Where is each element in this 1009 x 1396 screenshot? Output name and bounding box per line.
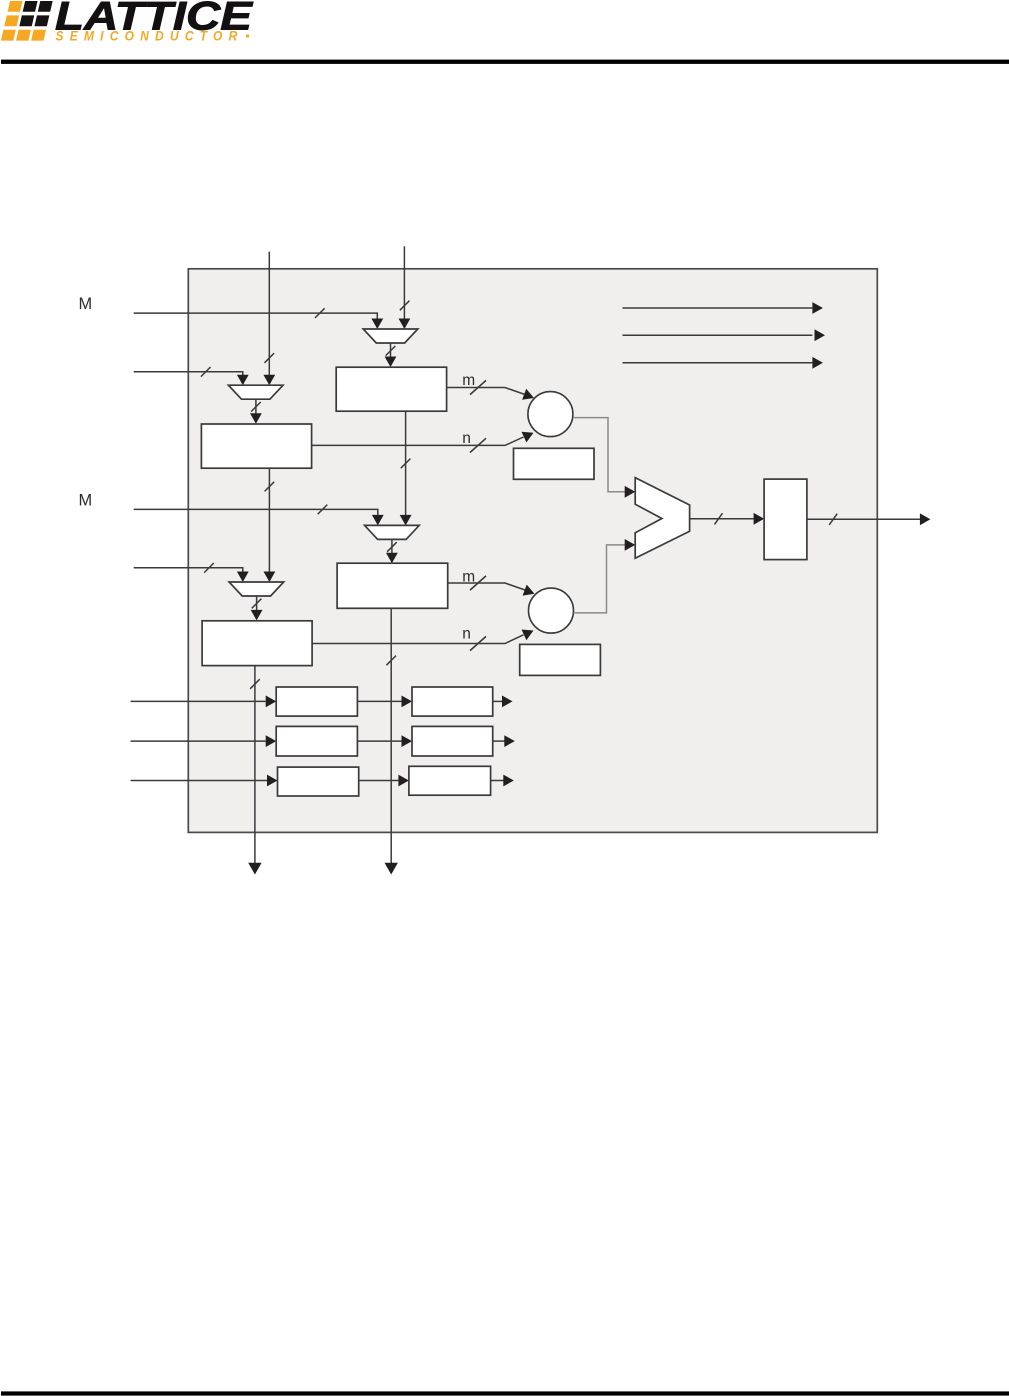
arrow into mux U2 left (371, 319, 383, 330)
mux U2 (363, 329, 418, 343)
arrow output row A (502, 696, 513, 708)
Lattice logo squares grid (1, 1, 53, 41)
wire comparator output (690, 518, 754, 520)
box B4 (202, 621, 312, 666)
arrow into output register (754, 513, 765, 525)
arrow into mux U4 right (400, 515, 412, 526)
svg-text:SEMICONDUCTOR: SEMICONDUCTOR (56, 29, 244, 44)
trademark dot (246, 35, 249, 38)
wire M row2 input (134, 509, 378, 515)
mux U3 (229, 582, 284, 596)
arrow n row2 into phase detector (522, 630, 534, 641)
svg-text:m: m (462, 372, 475, 389)
wire output row C (491, 780, 504, 782)
mux U1 (228, 385, 283, 399)
wire input2 row1 (134, 372, 243, 376)
bus slash input2 row2 (204, 563, 214, 573)
arrow into box B2 (250, 413, 262, 424)
arrow into right box row C (398, 775, 409, 787)
arrow into box B4 (251, 610, 263, 621)
arrow final output (920, 513, 931, 525)
bus slash mux U1 output (251, 402, 261, 412)
wire mux U1 output (255, 399, 257, 414)
wire box B1 to mux U4 (405, 411, 407, 515)
svg-text:M: M (79, 295, 93, 313)
arrow into mux U4 left (372, 515, 384, 526)
arrow n row1 into phase detector (522, 432, 534, 443)
wire box B2 to mux U3 (268, 468, 270, 572)
left box row A (276, 687, 357, 716)
wire mux U2 output (390, 343, 392, 358)
arrow into left box row A (266, 696, 277, 708)
arrow into mux U3 left (237, 572, 249, 583)
wire output row A (493, 700, 503, 702)
arrow m row2 into phase detector (523, 585, 535, 596)
arrow into left box row C (267, 775, 278, 787)
bus slash input2 row1 (201, 367, 211, 377)
status arrow 1 (623, 307, 813, 309)
arrow into comparator bottom (625, 539, 636, 551)
bus slash on B1-U4 wire (401, 459, 411, 469)
wire final output (807, 518, 920, 520)
bus slash vertical B (400, 301, 410, 311)
arrow into comparator top (625, 486, 636, 498)
bus slash n row2 (470, 636, 486, 650)
bus slash mux U3 output (252, 599, 262, 609)
arrow into box B1 (385, 357, 397, 368)
box under circle row2 (520, 644, 601, 675)
wire output row B (493, 740, 505, 742)
diagram panel (188, 269, 877, 833)
arrow output row B (504, 735, 515, 747)
phase detector circle row1 (528, 392, 573, 437)
wire M row1 input (134, 313, 378, 319)
phase detector circle row2 (529, 588, 574, 633)
svg-text:M: M (79, 491, 93, 509)
comparator chevron (635, 478, 689, 559)
top rule (1, 60, 1009, 64)
bus slash B4 down (250, 679, 260, 689)
wire circle row1 to comparator (573, 418, 625, 492)
wire box B4 down output (254, 666, 256, 863)
arrow into mux U1 left (237, 375, 249, 386)
wire n row2 (312, 635, 523, 644)
bus slash B3 down (386, 656, 396, 666)
status arrow 3 (623, 362, 813, 364)
wire vertical B into mux U2 (403, 246, 405, 319)
wire input row C (131, 780, 267, 782)
right box row C (409, 766, 491, 795)
mux U4 (365, 525, 420, 539)
arrow into mux U2 right (399, 319, 411, 330)
bus slash mux U2 output (386, 346, 396, 356)
box under circle row1 (514, 448, 595, 479)
wire mux U4 output (391, 539, 393, 553)
arrow into mux U3 right (264, 572, 276, 583)
wire m row2 (448, 583, 525, 590)
bus slash M row1 (315, 308, 325, 318)
left box row C (278, 767, 359, 796)
arrow into right box row B (402, 735, 413, 747)
right box row A (412, 687, 493, 716)
wire box B3 down output (390, 608, 392, 863)
left box row B (276, 726, 357, 756)
wire middle row B (357, 740, 401, 742)
wire input2 row2 (134, 568, 243, 572)
bus slash vertical A (265, 353, 275, 363)
bus slash m row2 (470, 576, 486, 590)
arrow into box B3 (386, 553, 398, 564)
bus slash m row1 (470, 380, 486, 394)
wire input row A (131, 700, 266, 702)
status arrow 2 (623, 334, 813, 336)
box B2 (201, 424, 311, 468)
arrow B4 output bottom (248, 863, 261, 875)
arrow into right box row A (402, 696, 413, 708)
arrow output row C (503, 775, 514, 787)
output register (764, 479, 807, 559)
wire middle row A (357, 700, 401, 702)
bus slash M row2 (318, 505, 328, 515)
arrow B3 output bottom (385, 863, 398, 875)
arrow into left box row B (266, 735, 277, 747)
bus slash mux U4 output (387, 542, 397, 552)
svg-text:n: n (462, 626, 471, 643)
arrow into mux U1 right (263, 375, 275, 386)
bus slash n row1 (470, 438, 486, 452)
box B1 (336, 367, 446, 411)
bus slash final output (829, 514, 837, 525)
wire m row1 (447, 388, 525, 395)
wire n row1 (312, 437, 524, 445)
bottom rule (1, 1391, 1009, 1395)
wire middle row C (359, 780, 399, 782)
arrow m row1 into phase detector (522, 389, 534, 400)
box B3 (337, 563, 448, 608)
bus slash comparator output (715, 513, 723, 524)
wire mux U3 output (256, 596, 258, 611)
wire vertical A into mux U1 (268, 252, 270, 376)
right box row B (412, 726, 493, 756)
wire circle row2 to comparator (574, 545, 626, 613)
wire input row B (131, 740, 266, 742)
bus slash on B2-U3 wire (265, 482, 275, 492)
